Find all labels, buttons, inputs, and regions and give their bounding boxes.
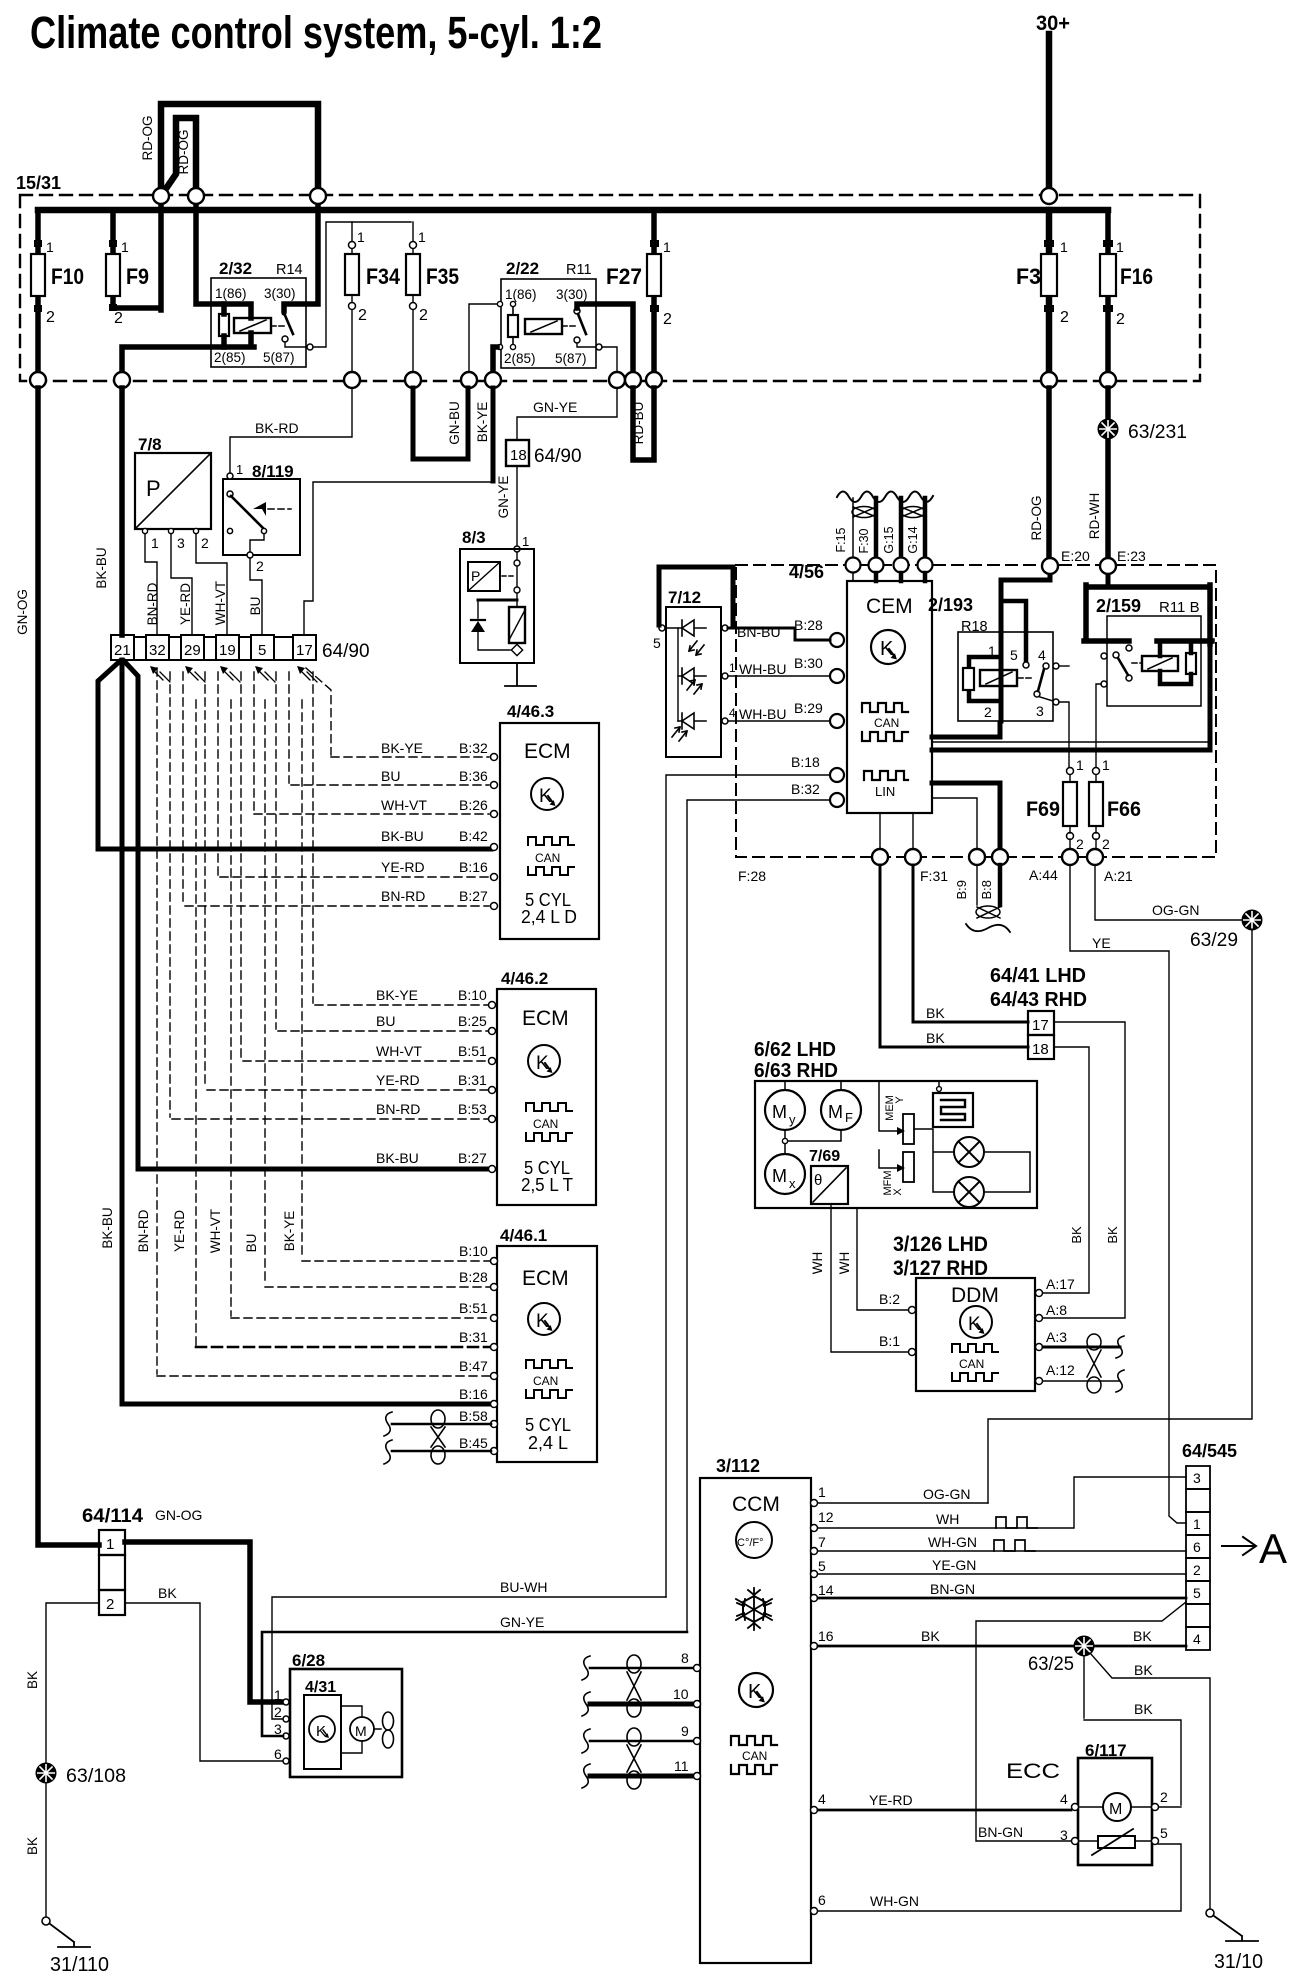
svg-text:5: 5 (1010, 647, 1018, 663)
svg-text:BN-BU: BN-BU (737, 624, 781, 640)
svg-text:CAN: CAN (959, 1357, 984, 1371)
svg-text:RD-BU: RD-BU (631, 402, 646, 445)
fuse F10 (31, 210, 84, 380)
wire WH 6/62 to DDM B:2 (857, 1208, 908, 1310)
svg-text:64/43 RHD: 64/43 RHD (990, 989, 1087, 1011)
svg-text:B:27: B:27 (459, 888, 488, 904)
svg-text:14: 14 (818, 1582, 834, 1598)
svg-text:B:28: B:28 (459, 1269, 488, 1285)
wire CEM F:28 F:31 bottom pins (879, 813, 881, 849)
svg-text:OG-GN: OG-GN (923, 1486, 970, 1502)
svg-text:BK-BU: BK-BU (376, 1150, 419, 1166)
svg-text:63/25: 63/25 (1028, 1654, 1074, 1675)
arrow A (1222, 1537, 1256, 1555)
wire GN-YE CEM B:32 to blower 3 (262, 1632, 687, 1736)
connector 64/545 (1182, 1441, 1237, 1650)
connector strip 64/90 (111, 635, 316, 660)
svg-text:YE-RD: YE-RD (172, 1210, 187, 1252)
wire relay 2/32 3(30) feed (284, 199, 318, 310)
svg-text:F27: F27 (606, 264, 642, 289)
potentiometer MEM Y (879, 1081, 897, 1131)
module CEM 4/56 (847, 581, 932, 813)
svg-text:B:53: B:53 (458, 1101, 487, 1117)
wire WH CCM.12 to 64/545.3 (818, 1477, 1186, 1528)
wire BK CCM.16 to 63/25 and 64/545.4 (818, 1645, 1186, 1648)
svg-text:BN-RD: BN-RD (376, 1101, 420, 1117)
wire relay 2/32 ground 2(85) to BK-BU (122, 333, 254, 380)
svg-text:1: 1 (46, 239, 54, 255)
coil (234, 318, 271, 333)
svg-text:B:30: B:30 (794, 655, 823, 671)
svg-text:K: K (539, 786, 552, 807)
wire RD-BU loop F27 to 3(30) (633, 388, 654, 460)
box 4/56 dashed boundary (736, 565, 1216, 857)
svg-text:2: 2 (46, 309, 55, 326)
connector 64/41 64/43 (990, 965, 1087, 1059)
svg-text:WH-VT: WH-VT (376, 1043, 422, 1059)
relay 2/22 R11 (497, 259, 596, 368)
wire CEM CAN B:9 (932, 798, 977, 849)
svg-text:CCM: CCM (732, 1493, 780, 1516)
svg-text:G:15: G:15 (882, 526, 896, 553)
svg-text:B:10: B:10 (458, 987, 487, 1003)
svg-text:1(86): 1(86) (505, 287, 537, 302)
svg-text:29: 29 (184, 642, 201, 659)
svg-text:WH-VT: WH-VT (381, 797, 427, 813)
svg-text:F:30: F:30 (857, 528, 871, 553)
svg-text:LIN: LIN (875, 784, 895, 799)
motor Mx (765, 1154, 805, 1194)
svg-text:2/22: 2/22 (506, 259, 539, 278)
dashed harness WH-VT (231, 672, 492, 1318)
connector 64/90 pin 18 (506, 440, 529, 466)
svg-text:2: 2 (1102, 836, 1110, 852)
svg-text:3: 3 (1060, 1827, 1068, 1843)
wire BK 64/41.18 to DDM A:17 (1043, 1047, 1089, 1293)
dashed harness BU (265, 672, 492, 1287)
svg-text:K: K (536, 1053, 549, 1074)
svg-text:2,4 L D: 2,4 L D (521, 907, 577, 927)
svg-text:BK-BU: BK-BU (100, 1207, 115, 1248)
wire GN-OG left feed (38, 388, 99, 1545)
wire BK-BU fusebox to pin 21 (119, 388, 125, 635)
fuse F34 (345, 222, 401, 380)
blower unit 6/28 (290, 1651, 402, 1777)
svg-text:1: 1 (1060, 239, 1068, 255)
svg-text:F16: F16 (1120, 264, 1153, 289)
motor My (765, 1090, 805, 1130)
svg-text:X: X (892, 1188, 904, 1196)
wire BN-BU to CEM B:28 (728, 628, 830, 640)
svg-text:1: 1 (663, 239, 671, 255)
wire CEM right to R18 coil (932, 723, 1000, 737)
node junctions on 15/31 top edge (153, 188, 1057, 204)
svg-text:2: 2 (106, 1596, 114, 1613)
svg-text:GN-YE: GN-YE (500, 1614, 544, 1630)
node junctions on 15/31 bottom edge (30, 372, 1116, 388)
svg-text:B:45: B:45 (459, 1435, 488, 1451)
svg-text:DDM: DDM (951, 1284, 999, 1307)
pins CEM left (830, 633, 844, 807)
relay 2/32 R14 (211, 259, 306, 367)
svg-text:M: M (772, 1166, 787, 1186)
wire WH-BU to CEM B:29 (728, 720, 830, 722)
wire WH-VT 7/8.2 to pin 19 (196, 534, 227, 634)
svg-text:BK: BK (1069, 1226, 1084, 1244)
svg-text:YE-RD: YE-RD (869, 1792, 913, 1808)
svg-text:7/12: 7/12 (668, 588, 701, 607)
actuator unit 6/62 6/63 (754, 1039, 1037, 1208)
wire E:20 to R18 pins 1,5 and through (1001, 573, 1050, 721)
svg-text:1: 1 (121, 239, 129, 255)
svg-text:CAN: CAN (742, 1749, 767, 1763)
svg-text:BK-BU: BK-BU (94, 547, 109, 588)
svg-text:WH-VT: WH-VT (208, 1209, 223, 1253)
svg-text:WH-VT: WH-VT (213, 581, 228, 625)
svg-text:ECM: ECM (522, 1007, 569, 1030)
svg-text:B:16: B:16 (459, 859, 488, 875)
svg-text:32: 32 (149, 642, 166, 659)
svg-text:YE: YE (1092, 935, 1111, 951)
svg-text:BK-YE: BK-YE (381, 740, 423, 756)
splice 63/25 (1028, 1637, 1094, 1676)
svg-text:BU: BU (248, 597, 263, 616)
svg-text:RD-WH: RD-WH (1087, 493, 1102, 540)
ECU 4/46.2 ECM (497, 969, 596, 1205)
svg-text:Y: Y (894, 1096, 906, 1104)
svg-text:y: y (789, 1112, 796, 1127)
blower controller ECC 6/117 (1006, 1741, 1168, 1865)
svg-text:B:18: B:18 (791, 754, 820, 770)
svg-text:1: 1 (522, 534, 529, 549)
wire CCM pin 10 twisted (590, 1702, 693, 1707)
svg-text:8/3: 8/3 (462, 528, 486, 547)
svg-text:B:58: B:58 (459, 1408, 488, 1424)
svg-text:A:44: A:44 (1029, 867, 1058, 883)
wire BK splice to ground 31/10 (1090, 1653, 1210, 1908)
wire 30+ feed (1046, 34, 1053, 196)
wire BK 64/41.17 to DDM A:8 (1043, 1022, 1125, 1318)
wire BK-BU pin21 branch to ECM 4/46.3 B:42 (98, 661, 491, 849)
svg-text:11: 11 (674, 1758, 689, 1774)
svg-text:WH: WH (810, 1252, 825, 1275)
wire relay 2/22 3(30) RD-BU (577, 304, 633, 380)
wire OG-GN from A:21 (1095, 865, 1242, 920)
svg-text:B:32: B:32 (459, 740, 488, 756)
svg-text:5 CYL: 5 CYL (525, 1415, 571, 1435)
pins CCM left (694, 1665, 701, 1780)
wire BN-GN CCM.14 to 64/545.5 (818, 1597, 1186, 1600)
svg-text:3/127 RHD: 3/127 RHD (893, 1257, 988, 1280)
svg-text:6/62 LHD: 6/62 LHD (754, 1039, 836, 1061)
svg-text:BU: BU (381, 768, 400, 784)
svg-text:4/56: 4/56 (789, 562, 824, 582)
svg-text:BK: BK (921, 1628, 940, 1644)
wire CCM pin 11 twisted (590, 1774, 693, 1779)
node circles CEM top pins (846, 558, 933, 573)
svg-text:GN-YE: GN-YE (496, 476, 511, 519)
svg-text:ECM: ECM (522, 1267, 569, 1290)
svg-text:2,5 L T: 2,5 L T (521, 1175, 573, 1195)
motor MF (821, 1090, 861, 1130)
svg-text:BN-GN: BN-GN (978, 1824, 1023, 1840)
svg-text:31/10: 31/10 (1214, 1951, 1263, 1973)
svg-text:A: A (1259, 1525, 1287, 1572)
svg-text:F:15: F:15 (834, 527, 848, 552)
svg-text:F: F (845, 1110, 853, 1125)
svg-text:BK-BU: BK-BU (381, 828, 424, 844)
svg-text:63/108: 63/108 (66, 1766, 126, 1787)
svg-text:GN-OG: GN-OG (15, 589, 30, 635)
svg-text:1: 1 (151, 535, 159, 551)
svg-text:CAN: CAN (533, 1374, 558, 1388)
svg-text:1: 1 (1102, 757, 1110, 773)
svg-text:2: 2 (1116, 311, 1125, 328)
wire GN-BU loop F35 to 1(86) (413, 388, 468, 459)
svg-text:M: M (828, 1102, 843, 1122)
wire main 30-bus (38, 207, 1108, 214)
svg-text:BK-YE: BK-YE (282, 1211, 297, 1252)
wire YE from A:44 (1070, 865, 1186, 1523)
dashed harness YE-RD (196, 672, 491, 1345)
svg-text:ECM: ECM (524, 740, 571, 763)
wire BK-BU pin21 branch to ECM 4/46.2 B:27 (124, 661, 491, 1169)
wire 7/12 common feed loop (659, 567, 733, 625)
wires motor links (785, 1081, 841, 1154)
svg-text:4: 4 (818, 1791, 826, 1807)
svg-text:M: M (355, 1723, 367, 1739)
svg-text:RD-OG: RD-OG (140, 116, 155, 161)
wire RD-OG F3 to E:20 (1046, 388, 1052, 558)
module DDM 3/126 (893, 1233, 1035, 1391)
svg-text:BK-YE: BK-YE (475, 402, 490, 443)
svg-text:5: 5 (1160, 1825, 1168, 1841)
svg-text:A:21: A:21 (1104, 868, 1133, 884)
svg-text:5(87): 5(87) (555, 351, 587, 366)
wire YE-GN CCM.5 to 64/545.2 (818, 1573, 1186, 1575)
svg-text:1: 1 (357, 229, 365, 245)
svg-text:WH-BU: WH-BU (739, 661, 786, 677)
svg-text:2: 2 (1060, 309, 1069, 326)
svg-text:6/28: 6/28 (292, 1651, 325, 1670)
switch 8/119 (223, 462, 300, 555)
connector arrows under strip (152, 669, 317, 682)
svg-text:63/231: 63/231 (1128, 422, 1187, 443)
wire BK F:28 to 64/41 pin 18 (880, 865, 1028, 1047)
svg-text:2: 2 (663, 311, 672, 328)
svg-text:5: 5 (818, 1558, 826, 1574)
wire WH-BU to CEM B:30 (728, 675, 830, 677)
wire DDM A:3 A:12 twisted pair (1043, 1346, 1120, 1349)
svg-text:1: 1 (106, 1536, 114, 1553)
svg-text:64/114: 64/114 (82, 1506, 143, 1527)
svg-text:17: 17 (1032, 1017, 1049, 1034)
svg-text:1: 1 (274, 1687, 282, 1703)
svg-text:B:27: B:27 (458, 1150, 487, 1166)
ECU 4/46.3 ECM (500, 702, 599, 939)
svg-text:GN-YE: GN-YE (533, 399, 577, 415)
ground 31/10 (1206, 1909, 1263, 1973)
pins ECM 4/46.3 (491, 754, 498, 910)
svg-text:F9: F9 (126, 264, 149, 289)
wire RD-WH F16 to E:23 (1105, 388, 1111, 558)
svg-text:63/29: 63/29 (1190, 930, 1238, 951)
svg-text:RD-OG: RD-OG (1029, 496, 1044, 541)
wire OG-GN down to CCM (988, 929, 1252, 1503)
wire F9.2 to RD-OG riser (113, 196, 161, 310)
svg-text:R11: R11 (566, 262, 592, 278)
svg-text:R14: R14 (276, 262, 303, 278)
sensor 7/69 (809, 1148, 848, 1204)
svg-text:BN-RD: BN-RD (136, 1209, 151, 1252)
wire relay 2/32 5(87) out (285, 342, 306, 347)
svg-text:F34: F34 (366, 264, 401, 289)
svg-text:BN-RD: BN-RD (381, 888, 425, 904)
wire RD-OG inner loop (163, 118, 196, 196)
wire BK F:31 to 64/41 pin 17 (913, 865, 1028, 1022)
svg-text:YE-RD: YE-RD (381, 859, 425, 875)
fuse F35 (406, 222, 459, 380)
svg-text:OG-GN: OG-GN (1152, 902, 1199, 918)
svg-text:G:14: G:14 (906, 526, 920, 553)
svg-text:17: 17 (296, 642, 313, 659)
svg-text:6: 6 (274, 1746, 282, 1762)
svg-text:3/112: 3/112 (716, 1456, 760, 1476)
svg-text:B:31: B:31 (458, 1072, 487, 1088)
svg-text:B:8: B:8 (979, 880, 994, 900)
potentiometer MFM X (879, 1150, 897, 1168)
svg-text:2/32: 2/32 (219, 259, 252, 278)
wire BN-RD 7/8.1 to pin 32 (145, 534, 157, 634)
wire BK 64/114.2 right to blower pin 6 (125, 1603, 283, 1761)
wire WH 7/69 to DDM B:1 (831, 1204, 908, 1352)
svg-text:4/31: 4/31 (305, 1679, 336, 1696)
svg-text:2(85): 2(85) (504, 351, 536, 366)
svg-text:1: 1 (1193, 1516, 1201, 1532)
fuse F9 (106, 210, 149, 327)
svg-text:2/193: 2/193 (928, 595, 973, 615)
ground 31/110 (42, 1917, 109, 1976)
svg-text:4: 4 (1038, 647, 1046, 663)
svg-text:YE-RD: YE-RD (178, 583, 193, 625)
svg-text:4: 4 (1060, 1791, 1068, 1807)
svg-text:BK-RD: BK-RD (255, 420, 299, 436)
svg-text:31/110: 31/110 (50, 1954, 109, 1976)
svg-text:BK: BK (1134, 1701, 1153, 1717)
fuse F69 (1026, 757, 1084, 852)
svg-text:BN-GN: BN-GN (930, 1581, 975, 1597)
wire 2/159 output to F66 (1096, 684, 1101, 768)
svg-text:B:42: B:42 (459, 828, 488, 844)
svg-text:4: 4 (1193, 1631, 1201, 1647)
svg-text:B:29: B:29 (794, 700, 823, 716)
wire CCM pin 8 twisted (590, 1667, 693, 1670)
wire BK-RD F34 to 8/119 (230, 388, 352, 473)
svg-text:1(86): 1(86) (215, 286, 247, 301)
svg-text:4/46.1: 4/46.1 (500, 1226, 547, 1245)
heater grid symbol (938, 1081, 940, 1093)
svg-text:B:16: B:16 (459, 1386, 488, 1402)
svg-text:30+: 30+ (1036, 12, 1070, 35)
wire GN-OG 64/114.1 to blower 4/31.1 (125, 1542, 283, 1702)
svg-text:21: 21 (114, 642, 131, 659)
svg-text:A:12: A:12 (1046, 1362, 1075, 1378)
solenoid 8/3 (460, 528, 534, 663)
svg-text:5: 5 (653, 635, 661, 651)
svg-text:F:28: F:28 (738, 868, 766, 884)
pins CCM right (811, 1500, 818, 1915)
svg-text:E:23: E:23 (1117, 548, 1146, 564)
wire 2/159 right leg to CEM (1208, 644, 1213, 750)
fuse F16 (1100, 210, 1153, 380)
svg-text:A:17: A:17 (1046, 1276, 1075, 1292)
svg-text:12: 12 (818, 1509, 834, 1525)
svg-text:F3: F3 (1016, 264, 1041, 289)
wire YE-RD CCM.4 to ECC.4 (818, 1809, 1071, 1812)
wire R18 pin4 stub (1059, 665, 1069, 667)
svg-text:15/31: 15/31 (16, 173, 61, 193)
wire BK-YE to 64/90 pin 17 (491, 388, 496, 481)
svg-text:BK: BK (926, 1030, 945, 1046)
svg-text:x: x (789, 1176, 796, 1191)
svg-text:BK: BK (1134, 1662, 1153, 1678)
svg-text:1: 1 (1076, 757, 1084, 773)
svg-text:4: 4 (729, 706, 736, 720)
relay 2/193 R18 (928, 595, 1059, 721)
wire BK to ground 31/110 (45, 1783, 47, 1917)
wire WH-GN CCM.7 to 64/545.6 (818, 1550, 1186, 1552)
svg-text:2: 2 (256, 558, 264, 574)
wire CEM LIN thin to 2/159 (932, 706, 1210, 742)
svg-text:2/159: 2/159 (1096, 596, 1141, 616)
svg-text:64/545: 64/545 (1182, 1441, 1237, 1461)
svg-text:GN-OG: GN-OG (155, 1507, 202, 1523)
svg-text:WH-BU: WH-BU (739, 706, 786, 722)
dashed harness BN-RD (157, 668, 492, 1376)
fuse F3 (1016, 210, 1069, 380)
svg-text:10: 10 (673, 1686, 689, 1702)
svg-text:8: 8 (681, 1650, 689, 1666)
module CCM 3/112 (700, 1456, 811, 1963)
svg-text:B:26: B:26 (459, 797, 488, 813)
svg-text:18: 18 (1032, 1041, 1049, 1058)
svg-text:B:1: B:1 (879, 1333, 900, 1349)
svg-text:1: 1 (1116, 239, 1124, 255)
svg-text:2: 2 (984, 704, 992, 720)
svg-text:6: 6 (818, 1892, 826, 1908)
svg-text:A:3: A:3 (1046, 1329, 1067, 1345)
wire BU-WH CEM B:18 to blower 2 (272, 1597, 666, 1719)
svg-text:19: 19 (219, 642, 236, 659)
svg-text:F69: F69 (1026, 798, 1060, 821)
svg-text:B:47: B:47 (459, 1358, 488, 1374)
switch (281, 310, 286, 315)
svg-text:θ: θ (814, 1172, 822, 1189)
svg-text:BU: BU (244, 1234, 259, 1253)
svg-text:P: P (471, 568, 480, 584)
svg-text:BK-YE: BK-YE (376, 987, 418, 1003)
svg-text:7: 7 (818, 1534, 826, 1550)
svg-text:3: 3 (1193, 1470, 1201, 1486)
svg-text:BK: BK (158, 1585, 177, 1601)
wire BK 64/114.2 to ground (46, 1603, 99, 1763)
svg-text:1: 1 (418, 229, 426, 245)
svg-text:BK: BK (1105, 1226, 1120, 1244)
wire CAN pair twisted ends (976, 865, 978, 905)
svg-text:B:25: B:25 (458, 1013, 487, 1029)
svg-text:K: K (968, 1314, 981, 1335)
coil resistor (219, 314, 229, 336)
